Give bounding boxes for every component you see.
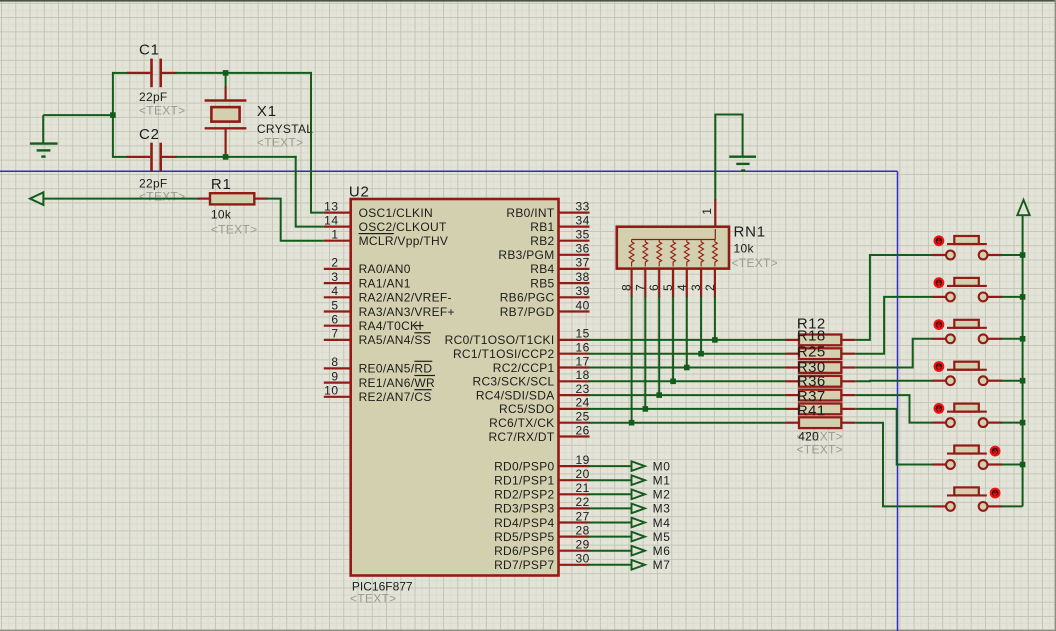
resistor R18 <box>786 348 856 359</box>
pin 18 RC3/SCK/SCL stub (right) <box>559 368 590 382</box>
svg-text:RD2/PSP2: RD2/PSP2 <box>494 488 554 502</box>
pin name RD1/PSP1 <box>494 474 554 488</box>
value 22pF (C1) <box>139 90 168 104</box>
net label M7 <box>653 558 671 572</box>
svg-text:14: 14 <box>324 213 338 227</box>
svg-text:8: 8 <box>620 284 634 291</box>
svg-text:25: 25 <box>576 410 590 424</box>
terminal arrow M5 (right pointing) <box>632 532 645 542</box>
svg-text:10: 10 <box>324 384 338 398</box>
pin 5 stub (left) <box>324 298 351 312</box>
label R1 <box>211 176 232 193</box>
pin 2 stub (left) <box>324 256 351 270</box>
push button SW3 <box>932 320 1002 343</box>
svg-text:RD6/PSP6: RD6/PSP6 <box>494 544 554 558</box>
svg-text:1: 1 <box>700 208 714 215</box>
svg-text:10k: 10k <box>734 241 755 255</box>
pin 26 RC7/RX/DT stub (right) <box>559 423 590 437</box>
node junction crystal top <box>223 70 229 76</box>
wire crystal bottom stub <box>225 153 227 157</box>
push button SW5 actuator marker <box>935 404 944 413</box>
pin name RB3/PGM <box>498 248 554 262</box>
pin name RC2/CCP1 <box>493 361 555 375</box>
capacitor C1 <box>127 59 177 88</box>
svg-text:30: 30 <box>576 552 590 566</box>
pin name RC6/TX/CK <box>489 416 554 430</box>
pin 14 stub (left) <box>324 213 351 227</box>
svg-text:RC0/T1OSO/T1CKI: RC0/T1OSO/T1CKI <box>445 333 555 347</box>
svg-text:29: 29 <box>576 538 590 552</box>
wire R41 to button 6 <box>855 409 933 465</box>
svg-text:21: 21 <box>576 481 590 495</box>
svg-text:M1: M1 <box>653 474 671 488</box>
wire terminal to R1 <box>43 198 199 200</box>
pin name RB5 <box>530 276 554 290</box>
push button SW7 actuator marker <box>991 489 1000 498</box>
svg-text:RB4: RB4 <box>530 262 554 276</box>
label C2 <box>139 126 160 143</box>
svg-text:OSC1/CLKIN: OSC1/CLKIN <box>359 206 433 220</box>
node junction crystal bottom <box>223 154 229 160</box>
pin name RB6/PGC <box>500 291 555 305</box>
pin 36 RB3/PGM stub (right) <box>559 242 590 256</box>
pin name RE1/AN6/WR <box>359 376 435 390</box>
node junction RN1 pin 7 <box>643 406 649 412</box>
svg-text:23: 23 <box>576 382 590 396</box>
svg-text:7: 7 <box>633 284 647 291</box>
pin 17 RC2/CCP1 stub (right) <box>559 354 590 368</box>
svg-text:R25: R25 <box>797 343 826 360</box>
value 10k (RN1) <box>734 241 755 255</box>
svg-text:15: 15 <box>576 327 590 341</box>
pin 10 stub (left) <box>324 384 351 398</box>
push button SW2 <box>932 278 1002 301</box>
pin 27 RD4/PSP4 stub (right) <box>559 509 590 523</box>
svg-text:M3: M3 <box>653 502 671 516</box>
pin name RE2/AN7/CS <box>359 390 432 404</box>
pin name RB1 <box>530 220 554 234</box>
pin 23 RC4/SDI/SDA stub (right) <box>559 382 590 396</box>
node junction bus row 6 <box>1020 462 1026 468</box>
svg-text:40: 40 <box>576 298 590 312</box>
wire RN1 pin 5 down <box>672 297 674 382</box>
sheet border right edge (blue) <box>897 171 899 631</box>
op-amp n/a - microcontroller U2 PIC16F877 body <box>351 199 559 576</box>
wire RC4 to resistor R36 <box>589 394 787 396</box>
push button SW3 actuator marker <box>935 320 944 329</box>
pin 8 stub (left) <box>324 355 351 369</box>
svg-text:C1: C1 <box>139 42 160 59</box>
pin 4 stub (left) <box>324 284 351 298</box>
pin 39 RB6/PGC stub (right) <box>559 284 590 298</box>
label RN1 <box>734 223 766 240</box>
svg-text:RB6/PGC: RB6/PGC <box>500 291 555 305</box>
pin name MCLR/Vpp/THV <box>359 234 449 248</box>
wire RD0/PSP0 to terminal M0 <box>589 465 632 467</box>
svg-text:24: 24 <box>576 396 590 410</box>
property &lt;TEXT&gt; (R group) <box>797 442 843 456</box>
svg-text:RC3/SCK/SCL: RC3/SCK/SCL <box>473 375 555 389</box>
svg-text:9: 9 <box>331 369 338 383</box>
push button SW7 <box>932 487 1002 510</box>
svg-text:RB1: RB1 <box>530 220 554 234</box>
property &lt;TEXT&gt; (C1) <box>139 103 185 117</box>
value 22pF (C2) <box>139 176 168 190</box>
pin 7 stub (left) <box>324 327 351 341</box>
node junction RN1 pin 4 <box>684 365 690 371</box>
svg-text:6: 6 <box>647 284 661 291</box>
RN1 pin 5 stub <box>661 269 675 298</box>
svg-text:RD3/PSP3: RD3/PSP3 <box>494 502 554 516</box>
svg-text:33: 33 <box>576 199 590 213</box>
net label M3 <box>653 502 671 516</box>
svg-text:RB3/PGM: RB3/PGM <box>498 248 554 262</box>
label R18 <box>797 327 826 344</box>
svg-text:37: 37 <box>576 256 590 270</box>
svg-text:M6: M6 <box>653 544 671 558</box>
node junction bus row 5 <box>1020 420 1026 426</box>
RN1 pin 2 stub <box>703 269 717 298</box>
wire C2 right to OSC2 drop <box>176 156 297 158</box>
svg-text:38: 38 <box>576 270 590 284</box>
svg-text:<TEXT>: <TEXT> <box>350 591 396 605</box>
pin name RD3/PSP3 <box>494 502 554 516</box>
resistor R12 <box>786 335 856 346</box>
pin name RC4/SDI/SDA <box>476 388 555 402</box>
pin name RD2/PSP2 <box>494 488 554 502</box>
svg-text:3: 3 <box>689 284 703 291</box>
svg-text:R1: R1 <box>211 176 232 193</box>
pin name RA4/T0CKI <box>359 319 422 333</box>
pin name RE0/AN5/RD <box>359 362 433 376</box>
pin name RD4/PSP4 <box>494 516 554 530</box>
pin 6 stub (left) <box>324 313 351 327</box>
svg-text:22pF: 22pF <box>139 176 168 190</box>
net label M2 <box>653 488 671 502</box>
wire right bus vertical <box>1022 215 1024 506</box>
wire RD6/PSP6 to terminal M6 <box>589 550 632 552</box>
terminal arrow M0 (right pointing) <box>632 461 645 471</box>
terminal arrow M2 (right pointing) <box>632 490 645 500</box>
svg-text:RC1/T1OSI/CCP2: RC1/T1OSI/CCP2 <box>453 347 555 361</box>
wire R30 to button 3 <box>855 339 933 368</box>
svg-text:22: 22 <box>576 495 590 509</box>
pin 34 RB1 stub (right) <box>559 213 590 227</box>
property &lt;TEXT&gt; (C2) <box>139 189 185 203</box>
svg-text:7: 7 <box>331 327 338 341</box>
pin 40 RB7/PGD stub (right) <box>559 298 590 312</box>
resistor R37 <box>786 404 856 415</box>
wire OSC1 net <box>311 72 324 213</box>
node junction bus row 2 <box>1020 294 1026 300</box>
wire RC0 to resistor R12 <box>589 339 787 341</box>
terminal arrow M4 (right pointing) <box>632 518 645 528</box>
label PIC16F877 <box>352 580 413 594</box>
wire RC2 to resistor R25 <box>589 367 787 369</box>
svg-text:RA2/AN2/VREF-: RA2/AN2/VREF- <box>359 291 452 305</box>
wire R1 to MCLR pin <box>267 199 324 241</box>
wire button 3 to bus <box>1001 338 1022 340</box>
resistor R1 <box>198 193 268 204</box>
node junction at ground tee <box>110 112 116 118</box>
pin 1 stub (left) <box>324 228 351 242</box>
resistor R25 <box>786 362 856 373</box>
svg-text:CRYSTAL: CRYSTAL <box>257 122 313 136</box>
wire vertical C1-C2 left <box>112 72 114 158</box>
push button SW4 <box>932 362 1002 385</box>
pin name RA2/AN2/VREF- <box>359 291 452 305</box>
svg-text:<TEXT>: <TEXT> <box>139 103 185 117</box>
svg-text:28: 28 <box>576 523 590 537</box>
pin name RB4 <box>530 262 554 276</box>
resistor R41 <box>786 417 856 428</box>
svg-text:M5: M5 <box>653 530 671 544</box>
net label M5 <box>653 530 671 544</box>
svg-text:RC2/CCP1: RC2/CCP1 <box>493 361 555 375</box>
pin name RC1/T1OSI/CCP2 <box>453 347 555 361</box>
svg-text:RD1/PSP1: RD1/PSP1 <box>494 474 554 488</box>
wire ground to C1/C2 node <box>43 114 113 116</box>
pin 25 RC6/TX/CK stub (right) <box>559 410 590 424</box>
svg-text:RE0/AN5/RD: RE0/AN5/RD <box>359 362 433 376</box>
pin name RD0/PSP0 <box>494 459 554 473</box>
node junction bus row 4 <box>1020 378 1026 384</box>
pin 28 RD5/PSP5 stub (right) <box>559 523 590 537</box>
property &lt;TEXT&gt; overlap <box>797 429 843 443</box>
svg-text:RA4/T0CKI: RA4/T0CKI <box>359 319 422 333</box>
svg-text:20: 20 <box>576 467 590 481</box>
pin 13 stub (left) <box>324 199 351 213</box>
svg-text:RC5/SDO: RC5/SDO <box>499 402 554 416</box>
wire button 4 to bus <box>1001 380 1022 382</box>
svg-text:6: 6 <box>331 313 338 327</box>
svg-text:13: 13 <box>324 199 338 213</box>
svg-text:8: 8 <box>331 355 338 369</box>
pin 20 RD1/PSP1 stub (right) <box>559 467 590 481</box>
wire crystal top lead green <box>225 73 227 88</box>
svg-text:RB0/INT: RB0/INT <box>506 206 554 220</box>
node junction RN1 pin 2 <box>712 337 718 343</box>
terminal arrow M7 (right pointing) <box>632 560 645 570</box>
wire RN1 pin1 to ground <box>715 115 742 200</box>
property &lt;TEXT&gt; (R1) <box>211 223 257 237</box>
svg-text:M0: M0 <box>653 459 671 473</box>
label R36 <box>797 373 826 390</box>
node junction RN1 pin 3 <box>698 351 704 357</box>
wire RN1 pin 8 down <box>631 297 633 423</box>
svg-text:17: 17 <box>576 354 590 368</box>
label C1 <box>139 42 160 59</box>
pin name RA1/AN1 <box>359 276 411 290</box>
node junction bus row 1 <box>1020 252 1026 258</box>
pin name RD6/PSP6 <box>494 544 554 558</box>
node junction RN1 pin 8 <box>629 420 635 426</box>
pin name RB0/INT <box>506 206 554 220</box>
push button SW1 actuator marker <box>935 237 944 246</box>
push button SW6 actuator marker <box>991 447 1000 456</box>
node junction RN1 pin 5 <box>670 379 676 385</box>
svg-text:RB5: RB5 <box>530 276 554 290</box>
property &lt;TEXT&gt; (RN1) <box>732 256 778 270</box>
property &lt;TEXT&gt; (X1) <box>257 135 303 149</box>
svg-text:2: 2 <box>331 256 338 270</box>
terminal arrow M3 (right pointing) <box>632 504 645 514</box>
svg-text:RD4/PSP4: RD4/PSP4 <box>494 516 554 530</box>
label R30 <box>797 359 826 376</box>
svg-text:3: 3 <box>331 270 338 284</box>
sheet border top edge (blue) <box>0 170 898 172</box>
wire R-last to button 7 <box>855 423 933 507</box>
ground symbol GND1 <box>30 115 58 157</box>
RN1 pin 3 stub <box>689 269 703 298</box>
terminal arrow M6 (right pointing) <box>632 546 645 556</box>
terminal arrow M1 (right pointing) <box>632 475 645 485</box>
net label M1 <box>653 474 671 488</box>
pin name RA4/T0CKI trailing overline mark <box>415 325 424 327</box>
svg-text:<TEXT>: <TEXT> <box>732 256 778 270</box>
pin 9 stub (left) <box>324 369 351 383</box>
wire RC5 to resistor R37 <box>589 408 787 410</box>
capacitor C2 <box>127 143 177 172</box>
svg-text:1: 1 <box>331 228 338 242</box>
svg-text:34: 34 <box>576 213 590 227</box>
svg-text:4: 4 <box>675 284 689 291</box>
pin name RC7/RX/DT <box>488 430 554 444</box>
svg-text:2: 2 <box>703 284 717 291</box>
node junction bus row 3 <box>1020 336 1026 342</box>
pin 35 RB2 stub (right) <box>559 228 590 242</box>
svg-text:RA3/AN3/VREF+: RA3/AN3/VREF+ <box>359 305 455 319</box>
pin name RD7/PSP7 <box>494 558 554 572</box>
wire button 6 to bus <box>1001 464 1022 466</box>
svg-text:4: 4 <box>331 284 338 298</box>
resistor network RN1 body <box>617 227 729 269</box>
svg-text:26: 26 <box>576 423 590 437</box>
wire R36 to button 4 <box>855 380 933 383</box>
wire RD3/PSP3 to terminal M3 <box>589 507 632 509</box>
node junction RN1 pin 6 <box>656 392 662 398</box>
svg-text:C2: C2 <box>139 126 160 143</box>
svg-text:M4: M4 <box>653 516 671 530</box>
value 420 (R41 group) <box>798 429 819 443</box>
svg-text:RD0/PSP0: RD0/PSP0 <box>494 459 554 473</box>
svg-text:RE2/AN7/CS: RE2/AN7/CS <box>359 390 432 404</box>
svg-text:16: 16 <box>576 341 590 355</box>
push button SW1 <box>932 236 1002 259</box>
svg-text:RA0/AN0: RA0/AN0 <box>359 262 411 276</box>
pin name OSC1/CLKIN <box>359 206 433 220</box>
svg-text:22pF: 22pF <box>139 90 168 104</box>
pin name RB7/PGD <box>500 305 555 319</box>
svg-text:OSC2/CLKOUT: OSC2/CLKOUT <box>359 220 447 234</box>
value 10k (R1) <box>211 208 232 222</box>
pin name OSC2/CLKOUT <box>359 220 447 234</box>
pin 33 RB0/INT stub (right) <box>559 199 590 213</box>
svg-text:39: 39 <box>576 284 590 298</box>
svg-text:RC6/TX/CK: RC6/TX/CK <box>489 416 554 430</box>
label U2 <box>349 184 370 201</box>
svg-text:RA5/AN4/SS: RA5/AN4/SS <box>359 333 431 347</box>
pin name RC5/SDO <box>499 402 554 416</box>
label R37 <box>797 388 826 405</box>
wire RC6 to resistor R41 <box>589 422 787 424</box>
svg-text:RA1/AN1: RA1/AN1 <box>359 276 411 290</box>
svg-text:RB2: RB2 <box>530 234 554 248</box>
wire R18 to button 1 <box>855 255 933 340</box>
pin 24 RC5/SDO stub (right) <box>559 396 590 410</box>
property &lt;TEXT&gt; (U2) <box>350 591 396 605</box>
label X1 <box>257 103 277 120</box>
pin 3 stub (left) <box>324 270 351 284</box>
wire RD7/PSP7 to terminal M7 <box>589 564 632 566</box>
svg-text:5: 5 <box>661 284 675 291</box>
wire RD1/PSP1 to terminal M1 <box>589 479 632 481</box>
net label M0 <box>653 459 671 473</box>
RN1 pin 6 stub <box>647 269 661 298</box>
svg-text:RN1: RN1 <box>734 223 766 240</box>
pin name RB2 <box>530 234 554 248</box>
svg-text:<TEXT>: <TEXT> <box>211 223 257 237</box>
svg-text:35: 35 <box>576 228 590 242</box>
label R41 <box>797 403 826 420</box>
pin 37 RB4 stub (right) <box>559 256 590 270</box>
wire RN1 pin 4 down <box>686 297 688 368</box>
svg-text:18: 18 <box>576 368 590 382</box>
svg-text:36: 36 <box>576 242 590 256</box>
pin 16 RC1/T1OSI/CCP2 stub (right) <box>559 341 590 355</box>
svg-text:27: 27 <box>576 509 590 523</box>
RN1 internal resistor elements <box>629 229 717 267</box>
svg-text:RB7/PGD: RB7/PGD <box>500 305 555 319</box>
label R12 <box>797 315 826 332</box>
RN1 pin 4 stub <box>675 269 689 298</box>
pin 38 RB5 stub (right) <box>559 270 590 284</box>
RN1 pin 8 stub <box>620 269 634 298</box>
svg-text:10k: 10k <box>211 208 232 222</box>
wire RN1 pin 3 down <box>700 297 702 354</box>
wire RD2/PSP2 to terminal M2 <box>589 493 632 495</box>
wire C2 left <box>113 156 128 158</box>
pin 22 RD3/PSP3 stub (right) <box>559 495 590 509</box>
crystal X1 <box>205 87 247 154</box>
pin 30 RD7/PSP7 stub (right) <box>559 552 590 566</box>
wire RD4/PSP4 to terminal M4 <box>589 522 632 524</box>
wire button 2 to bus <box>1001 296 1022 298</box>
svg-text:<TEXT>: <TEXT> <box>257 135 303 149</box>
resistor R36 <box>786 390 856 401</box>
push button SW2 actuator marker <box>935 278 944 287</box>
wire OSC2 net <box>296 156 324 227</box>
push button SW4 actuator marker <box>935 362 944 371</box>
wire button 1 to bus <box>1001 254 1022 256</box>
value CRYSTAL <box>257 122 313 136</box>
wire RC3 to resistor R30 <box>589 380 787 382</box>
wire RC1 to resistor R18 <box>589 353 787 355</box>
pin 19 RD0/PSP0 stub (right) <box>559 453 590 467</box>
pin 21 RD2/PSP2 stub (right) <box>559 481 590 495</box>
wire C1 right to OSC1 drop <box>176 72 311 74</box>
svg-text:X1: X1 <box>257 103 277 120</box>
ground symbol GND2 <box>729 157 756 171</box>
wire RD5/PSP5 to terminal M5 <box>589 536 632 538</box>
svg-text:420: 420 <box>798 429 819 443</box>
pin name RC0/T1OSO/T1CKI <box>445 333 555 347</box>
push button SW5 <box>932 404 1002 427</box>
resistor R30 <box>786 376 856 387</box>
svg-text:RD7/PSP7: RD7/PSP7 <box>494 558 554 572</box>
svg-text:R41: R41 <box>797 403 826 420</box>
push button SW6 <box>932 446 1002 469</box>
